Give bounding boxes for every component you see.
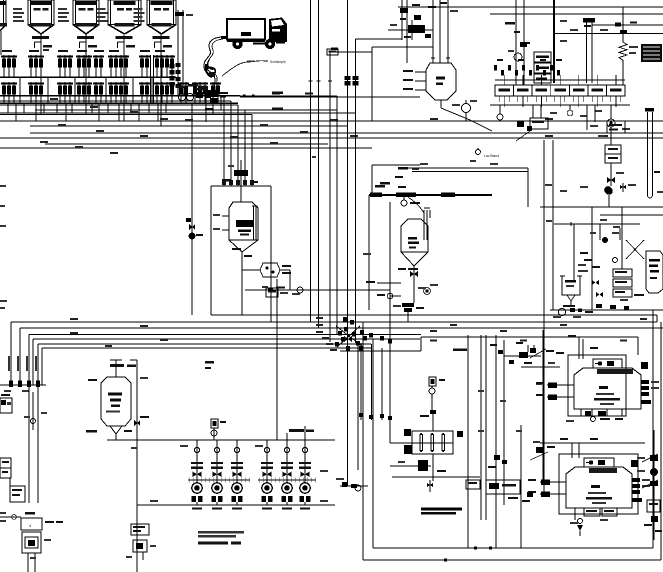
step down to y351 branch — [420, 337, 422, 351]
right edge valves — [650, 455, 658, 461]
valve stack left of pumps x172 — [170, 64, 175, 69]
label dashes on bus lines — [50, 98, 58, 100]
boiler2 main body — [566, 467, 632, 508]
trunk vertical x318 — [318, 0, 320, 328]
valve row 2 — [1, 82, 221, 103]
boiler2 top feed line — [540, 442, 645, 444]
vessel V2 steam header (thick) — [369, 194, 492, 196]
right edge riser bottom — [653, 430, 655, 540]
left edge mid labels — [0, 185, 6, 187]
vertical x468 — [467, 335, 469, 548]
U-loop feed pipes — [647, 112, 649, 193]
pump P6 — [299, 440, 311, 505]
right edge vessel B5 (partial) — [646, 251, 663, 293]
boiler2 drain triangle — [577, 525, 583, 531]
manifold header line y77 — [0, 76, 176, 78]
boiler1 flue square — [641, 362, 648, 369]
boiler1 main body — [574, 368, 641, 409]
bus line y113 — [0, 112, 356, 114]
left instrument box MB — [0, 398, 12, 413]
MVB vessel body — [101, 377, 131, 426]
hose connection fitting cluster — [206, 90, 218, 97]
left bottom corner txt — [0, 300, 7, 302]
top feed verticals — [401, 0, 403, 40]
tank T4 7040 — [134, 0, 177, 39]
top fitting cluster — [408, 25, 425, 33]
trunk vertical x330 — [329, 52, 331, 342]
bus y328 — [20, 327, 663, 329]
right assembly line y207 — [540, 206, 663, 208]
vessel V2 bottom outlet valves — [413, 266, 415, 303]
vessel V2 dip tube — [423, 210, 425, 240]
expansion spring symbol — [619, 40, 627, 62]
dots on inner frame bottom — [474, 547, 477, 550]
pump circles on filling line — [178, 93, 185, 100]
boiler1 hatched strip — [597, 369, 633, 374]
boiler2 right stubs — [632, 478, 640, 482]
exchanger top pipe — [432, 411, 434, 431]
valve stem x430 bottom — [429, 480, 431, 492]
bottom mini stack x137 — [131, 524, 149, 535]
bus line y121 — [0, 120, 663, 122]
vessel V2 top instrument circle — [401, 200, 407, 206]
bus y315 — [211, 314, 657, 316]
right turndowns from bus — [656, 315, 658, 322]
valve blobs above distribution row — [494, 65, 497, 71]
mixer B1 outlet diagonal — [440, 100, 442, 108]
tank outlet pipe T2 — [85, 34, 87, 114]
vertical x382 drop — [381, 348, 383, 420]
pump discharge header y505 — [137, 504, 335, 506]
district heat exchanger grid — [412, 431, 453, 454]
pump P2 — [211, 440, 223, 505]
bus y348 — [41, 348, 43, 385]
bus line y144 — [45, 143, 328, 145]
manifold header line y95 — [0, 95, 240, 97]
vertical x504 — [503, 340, 505, 505]
marks above E1 — [205, 361, 214, 364]
exchanger side blobs — [404, 429, 411, 436]
vessel V1 internal heater — [236, 220, 253, 227]
MVB vessel label — [110, 364, 124, 367]
bus y339 — [32, 339, 34, 385]
right assembly labels upper — [545, 184, 552, 186]
text block bottom-left-center — [198, 531, 244, 533]
tick marks on trunk lines — [309, 80, 313, 82]
marks near x543 y450 — [536, 447, 543, 453]
left drain line y517 — [0, 516, 21, 518]
tank outlet pipe T1 — [40, 34, 42, 114]
right riser pair x586/592 with cap — [586, 20, 588, 83]
staircase corners to vessel frame drops — [0, 95, 337, 97]
boiler1 top feed lines — [578, 337, 580, 359]
bottom valve cluster right assembly — [558, 308, 565, 315]
line y25 to right edge — [592, 24, 663, 26]
valve on top of right assembly — [607, 189, 609, 191]
mixer B1 hexagonal vessel — [426, 63, 456, 100]
right assembly bottom line y310 — [550, 309, 663, 311]
tank T3 7040 — [97, 0, 142, 39]
junction cluster dark marks — [344, 327, 348, 332]
instrument E2 — [429, 377, 436, 386]
trunk vertical x310 — [310, 0, 312, 322]
label ASMW — [289, 429, 304, 432]
riser group2 to label — [286, 433, 288, 440]
instruments above distribution row — [515, 0, 517, 85]
boiler2 outer frame — [559, 454, 638, 514]
bus labels right half — [430, 330, 437, 332]
hose vent line to label — [222, 61, 265, 76]
MVB vessel feed — [115, 360, 117, 377]
outer enclosure frame — [362, 322, 364, 560]
tank outlet valve label T1 — [43, 45, 52, 48]
left risers to bottom — [28, 385, 30, 503]
drop pipe with lower valve cluster x192 — [191, 103, 193, 315]
bus line y133 — [30, 132, 663, 134]
meter box right of distribution — [607, 121, 625, 133]
boiler2 bottom fittings — [584, 508, 600, 516]
left header y385 with valves — [0, 384, 46, 386]
bus y322 — [11, 321, 657, 323]
vertical x521 — [520, 425, 522, 548]
trunk vertical x347 — [347, 0, 349, 486]
right mid cluster above boiler1 — [519, 352, 528, 358]
vertical x358 — [357, 343, 359, 470]
pump group 2 baseplate — [258, 479, 316, 481]
boiler1 left feed arrows — [547, 384, 574, 386]
vessel V2 drain marks — [398, 268, 406, 270]
tank T2 7040 — [58, 0, 99, 39]
top-right supply line — [554, 33, 663, 35]
tank outlet pipe T4 — [160, 34, 162, 126]
stacked exchanger right — [613, 269, 632, 277]
pump P5 — [281, 440, 293, 505]
verticals from distribution to right assembly — [543, 140, 545, 494]
tank outlet pipe T3 — [123, 35, 125, 121]
bottom center small boxes right — [466, 480, 480, 489]
marks on right verticals — [478, 390, 484, 392]
pump P1 — [191, 440, 203, 505]
sample cooler T-4C (open top tank) — [562, 276, 580, 295]
vertical x486 — [485, 335, 487, 520]
exchanger bottom pipe — [432, 454, 434, 481]
mixer B1 left stubs — [415, 71, 426, 73]
instrument E1 above header — [211, 419, 218, 428]
boiler2 burner box — [584, 458, 614, 467]
boiler2 hatched strip — [589, 468, 617, 473]
boiler1 bottom fittings — [580, 409, 582, 416]
dark valve circle right — [605, 187, 613, 195]
right assembly components — [573, 224, 575, 281]
vertical x481 — [480, 335, 482, 520]
upper frame around mixer — [371, 47, 373, 121]
pump circle on line y121 — [462, 104, 471, 113]
drop from metering to bus — [276, 279, 278, 440]
bus line y138 (main transfer) — [0, 137, 663, 139]
MVB bottom funnel — [110, 426, 116, 434]
vessel V1 cone — [229, 240, 242, 252]
left small box stack B — [10, 486, 25, 502]
pump group 1 baseplate — [188, 479, 250, 481]
fitting marks on y97 line — [243, 95, 246, 98]
rotated pipe labels left — [8, 356, 10, 371]
drop pipes from manifold — [205, 95, 207, 122]
riser pipes right of tank T4 — [177, 10, 179, 95]
motor unit box (4) — [21, 518, 42, 530]
filled valve top right assembly — [604, 186, 612, 194]
right assembly line y215 — [600, 214, 663, 216]
boiler2 left feed stubs — [540, 481, 566, 483]
right assembly mid valves — [592, 280, 599, 285]
bus line y148 — [0, 147, 372, 149]
vessel V1 dip tube — [253, 206, 255, 240]
vertical x543 — [542, 330, 544, 480]
delivery truck — [221, 18, 287, 49]
vessel V2 frame left — [368, 195, 370, 310]
motor unit outlet — [27, 553, 29, 572]
bus y334 with step — [29, 334, 421, 336]
motor unit double box — [22, 532, 41, 553]
vertical x623 top (to spring) — [622, 7, 624, 40]
trunk vertical x337 — [336, 96, 338, 334]
right assembly extra verticals — [591, 207, 593, 310]
right assembly line y224 — [554, 223, 640, 225]
valve stack on riser x178 — [176, 63, 181, 67]
MVB side drop x137 — [136, 360, 138, 560]
metering unit hexagon — [260, 263, 280, 277]
legend block (dark) — [641, 44, 662, 62]
manifold header line y103 — [0, 102, 238, 104]
hose coil blob — [206, 64, 216, 77]
vertical x371 drop — [371, 344, 373, 420]
vessel V1 level stubs — [222, 215, 229, 217]
tank T1 7040 — [13, 0, 54, 39]
vessel V1 feed blob — [234, 170, 248, 176]
vessel V2 fill hose — [408, 197, 424, 213]
branch under distribution row — [517, 121, 524, 127]
drop marks at vessel frame top — [222, 180, 226, 185]
trunk vertical x355 — [355, 39, 357, 343]
inter-row drop pipes — [19, 77, 21, 103]
distribution box row F-40x — [495, 75, 625, 107]
bus line y110 extension — [35, 109, 337, 111]
transfer line y290 with pump — [245, 289, 390, 291]
vessel V1 bottom outlet — [241, 252, 243, 315]
inner enclosure frame — [372, 339, 374, 548]
distribution row headers — [495, 79, 625, 81]
spare txt under group1 — [180, 445, 188, 447]
valve marks on drops — [369, 333, 373, 338]
vertical x496 — [495, 335, 497, 548]
boiler1 right stubs — [641, 380, 649, 384]
svg-text:Schlample: Schlample — [270, 60, 286, 64]
bus line y126 — [30, 125, 347, 127]
pump suction header y440 — [107, 439, 335, 441]
tank T0 (partial at left edge) — [0, 0, 7, 55]
sampler box on drop pipe — [266, 288, 278, 297]
small valve x623 — [622, 183, 624, 192]
recirc component B40 — [605, 145, 621, 163]
bus labels left half — [70, 318, 78, 320]
svg-text:Lav Bland: Lav Bland — [484, 154, 499, 158]
pump P4 — [261, 440, 273, 505]
vessel V1 enclosure frame — [211, 185, 271, 187]
boiler1 burner box — [593, 359, 622, 368]
drop stubs manifold to bus lines — [7, 103, 9, 113]
vessel V1 body — [229, 202, 258, 240]
line y168 pair — [402, 167, 528, 169]
riser top fittings — [175, 12, 184, 16]
valve cluster near x347 end — [342, 482, 347, 487]
vessel V2 body — [401, 219, 428, 252]
valve row 1 (tank outlet manifold) — [1, 50, 175, 77]
boiler1 outer frame — [568, 355, 626, 416]
truck unloading hose — [204, 37, 221, 95]
vertical x361 drop — [360, 343, 362, 420]
small box on trunk pair top — [327, 49, 338, 55]
U-loop siphon at right edge — [648, 190, 653, 198]
pump P3 — [231, 440, 243, 505]
left small box stack A — [0, 458, 11, 478]
flange valves on trunk pair — [345, 76, 351, 80]
boiler2 flue square — [631, 460, 638, 467]
vessel V2 left stubs — [377, 282, 401, 284]
dark label Bemessungsbild — [421, 508, 462, 511]
bus y344 — [37, 344, 39, 385]
MVB left stub text — [88, 379, 97, 381]
mixer B1 ticks — [431, 57, 435, 59]
